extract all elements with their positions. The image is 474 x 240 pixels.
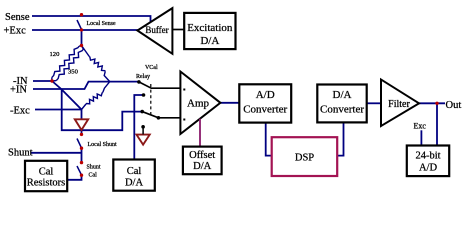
svg-text:Amp: Amp	[187, 98, 210, 110]
svg-text:Excitation: Excitation	[187, 22, 233, 34]
svg-text:Cal: Cal	[89, 173, 98, 179]
svg-text:DSP: DSP	[295, 153, 314, 164]
svg-text:Shunt: Shunt	[87, 165, 101, 171]
svg-text:350: 350	[68, 69, 79, 76]
svg-text:+IN: +IN	[10, 85, 27, 96]
svg-text:-Exc: -Exc	[10, 106, 30, 117]
svg-text:Shunt: Shunt	[8, 147, 33, 158]
svg-text:Resistors: Resistors	[27, 178, 66, 189]
svg-text:Sense: Sense	[5, 12, 30, 23]
svg-text:120: 120	[50, 51, 61, 58]
svg-text:Converter: Converter	[320, 104, 364, 116]
svg-text:D/A: D/A	[125, 178, 144, 189]
svg-text:Converter: Converter	[243, 104, 287, 116]
svg-text:Out: Out	[446, 100, 462, 111]
svg-text:Buffer: Buffer	[145, 25, 168, 35]
svg-text:D/A: D/A	[200, 35, 219, 47]
svg-text:A/D: A/D	[256, 89, 275, 101]
svg-text:Local Sense: Local Sense	[87, 21, 116, 27]
svg-text:Cal: Cal	[39, 166, 54, 177]
svg-text:Relay: Relay	[136, 74, 150, 80]
svg-text:24-bit: 24-bit	[415, 151, 440, 162]
svg-text:Exc: Exc	[414, 122, 427, 131]
svg-text:A/D: A/D	[419, 163, 438, 174]
svg-text:VCal: VCal	[145, 65, 158, 71]
svg-text:+Exc: +Exc	[4, 26, 27, 37]
svg-text:Cal: Cal	[127, 166, 142, 177]
svg-text:D/A: D/A	[193, 161, 212, 172]
svg-text:D/A: D/A	[333, 89, 352, 101]
svg-text:Offset: Offset	[189, 150, 215, 161]
svg-text:Local Shunt: Local Shunt	[88, 142, 117, 148]
svg-text:Filter: Filter	[388, 99, 410, 110]
